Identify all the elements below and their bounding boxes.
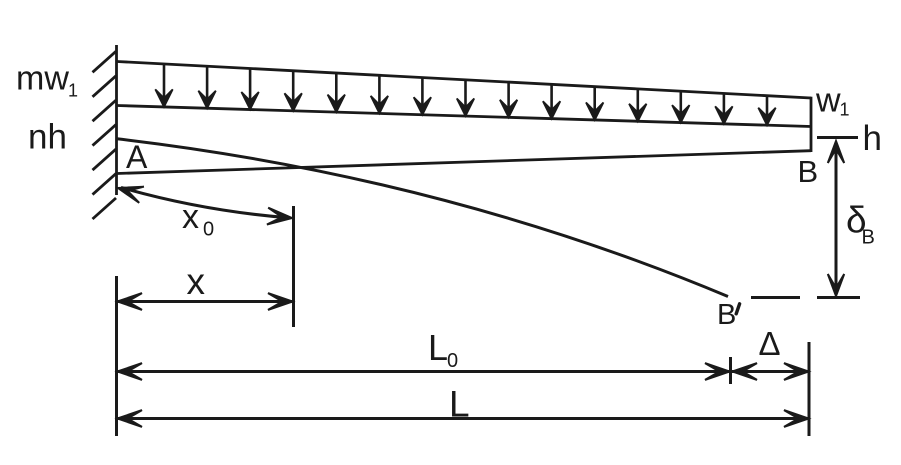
Delta dimension line [732,370,809,373]
svg-text:0: 0 [447,350,458,372]
load arrow 8 [457,80,474,116]
wall hatch 7 [93,198,117,219]
x dim right arrowhead [268,293,293,310]
x dimension left tick [115,276,118,436]
x dim left arrowhead [118,293,143,310]
load arrow 13 [672,91,689,122]
delta_B dimension line [835,143,838,295]
svg-text:A: A [126,139,148,175]
svg-text:nh: nh [28,118,67,157]
L0 right arrowhead [705,363,730,380]
svg-text:mw: mw [16,60,69,98]
load arrow 5 [328,73,345,112]
svg-text:B: B [862,227,875,249]
load arrow 1 [155,64,172,107]
load arrow 4 [285,71,302,111]
load arrow 11 [586,87,603,120]
svg-text:w: w [815,82,841,120]
svg-text:Δ: Δ [759,325,781,362]
wall hatch 4 [93,125,117,146]
svg-text:1: 1 [840,100,850,120]
svg-text:1: 1 [68,81,78,101]
load arrow 12 [629,89,646,121]
svg-text:x: x [182,198,199,236]
wall hatch 1 [93,51,117,72]
load arrow 14 [715,93,732,124]
L left arrowhead [118,410,143,427]
L0 end tick at B' position [729,357,732,384]
beam top edge [117,106,811,127]
load arrow 2 [198,66,215,108]
wall hatch 6 [93,174,117,195]
svg-text:h: h [863,119,882,158]
beam bottom edge [117,151,811,174]
svg-text:0: 0 [203,219,214,241]
delta_B bottom arrowhead [828,274,844,296]
L right arrowhead [784,410,809,427]
svg-text:L: L [449,384,470,425]
L dimension line [117,417,809,420]
load arrow 10 [543,84,560,118]
delta_B top arrowhead [828,141,844,163]
wall hatch 3 [93,100,117,121]
load arrow 15 [758,96,775,126]
wall fixed-support line [115,45,118,195]
datum dash right of B' [751,296,800,299]
x0 dimension curved leader [121,188,289,218]
wall hatch 2 [93,76,117,97]
L0 dimension line [117,370,730,373]
x0 right arrowhead [267,208,292,225]
load top edge [117,62,811,99]
x0 left arrowhead [118,187,144,203]
wall hatch 5 [93,149,117,170]
load arrow 7 [414,78,431,115]
svg-text:B: B [798,154,819,189]
svg-text:B: B [717,299,736,331]
svg-text:L: L [428,327,448,368]
load arrow 9 [500,82,517,117]
h tick mark [817,136,858,139]
load arrow 3 [241,69,258,110]
beam right end edge at B [810,97,813,152]
L0 left arrowhead [118,363,143,380]
deflection curve from A to B' [117,139,728,297]
x0 dimension right tick [292,206,295,327]
Delta right arrowhead [784,363,809,380]
L dimension right boundary tick [808,342,811,436]
Delta left arrowhead [733,363,758,380]
x dimension line [117,300,294,303]
svg-text:x: x [187,261,206,302]
load arrow 6 [371,75,388,113]
datum dash under delta_B arrow [817,296,860,299]
